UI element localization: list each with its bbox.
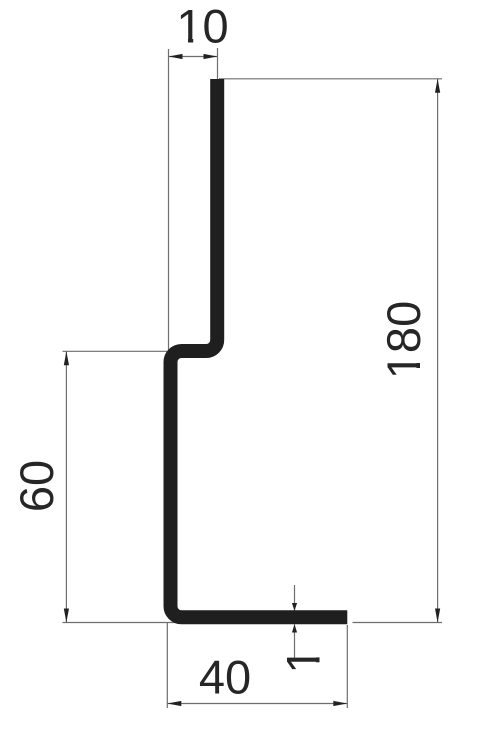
svg-text:10: 10 (176, 0, 228, 53)
extension line: right of dim 10 (to lip top) (217, 48, 219, 80)
dim 1 leader line upper (294, 585, 296, 611)
dimension line: 180 (437, 79, 439, 623)
dim 1 leader line lower (294, 625, 296, 661)
extension line: bottom reference (right part) (353, 622, 443, 624)
arrow: dim 60 top (64, 351, 69, 365)
arrow: dim 180 bottom (435, 609, 440, 623)
dimension line: 10 (169, 56, 218, 58)
dimension line: 40 (167, 703, 347, 705)
arrow: dim 10 left (169, 54, 183, 59)
arrow: dim 180 top (435, 79, 440, 93)
arrow: dim 10 right (204, 54, 218, 59)
arrow: dim 40 left (167, 701, 181, 706)
extension line: right of dim 40 (from flange end) (346, 625, 348, 708)
svg-text:40: 40 (199, 651, 251, 704)
extension line: left of dim 40 (166, 623, 168, 708)
extension line: top reference for dim 180 (219, 78, 442, 80)
extension line: left of dim 10 (runs down to jog) (168, 49, 170, 351)
profile: sheet-metal cross-section (lip, jog, web, flange) (171, 79, 348, 617)
extension line: bottom reference (left part, under flange) (63, 622, 346, 624)
extension line: top reference for dim 60 (at jog centerline) (63, 350, 173, 352)
arrow: dim 1 lower (points up to flange bottom) (292, 624, 297, 632)
arrow: dim 60 bottom (64, 609, 69, 623)
arrow: dim 40 right (333, 701, 347, 706)
dimension line: 60 (65, 351, 67, 622)
svg-text:60: 60 (10, 460, 63, 512)
svg-text:180: 180 (377, 301, 430, 379)
arrow: dim 1 upper (points down to flange top) (292, 603, 297, 611)
